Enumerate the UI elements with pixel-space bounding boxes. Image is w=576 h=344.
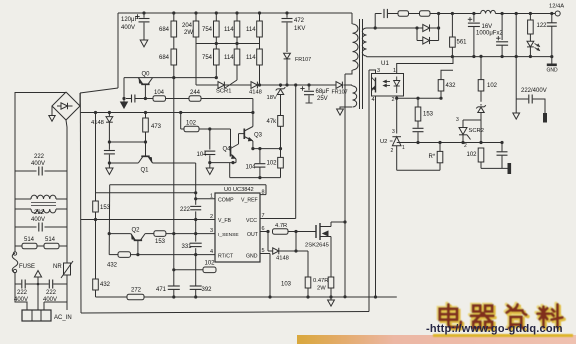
resistor 514 left <box>15 245 22 247</box>
resistor 114 col2 lower <box>259 37 261 49</box>
capacitor 392 <box>195 284 197 287</box>
resistor 561 <box>451 12 454 15</box>
wire pin5 to ground rail <box>269 254 271 298</box>
MOSFET Q5 2SK2645 <box>316 222 331 240</box>
wire SCR1 row <box>196 84 218 86</box>
wire Q4 base riser <box>230 129 232 146</box>
resistor 102 top <box>479 55 482 58</box>
resistor 103 <box>307 251 309 277</box>
resistor 684 upper <box>172 11 175 14</box>
wire diode riser <box>438 14 440 29</box>
wire HV bus <box>118 12 352 14</box>
wire Q0 collector row <box>124 77 216 79</box>
wire segment y162 <box>210 162 236 164</box>
chassis ground bar B <box>543 113 547 123</box>
resistor snubber A <box>398 11 409 17</box>
resistor 754 upper <box>215 11 218 14</box>
wire V_FB row <box>81 219 215 221</box>
thyristor SCR2 <box>461 141 464 144</box>
resistor 102 fb low <box>478 148 484 162</box>
wire gate feedback riser <box>295 232 297 252</box>
capacitor 1000uF B <box>501 12 504 15</box>
ground arrow under rail <box>330 297 332 300</box>
resistor 514 right <box>37 245 44 247</box>
resistor 153 fb2 <box>417 98 419 107</box>
fuse FUSE <box>12 253 18 273</box>
wires into AC connector <box>37 283 40 286</box>
ground GND bar <box>551 57 553 64</box>
capacitor 222 comp <box>190 206 201 209</box>
bridge rectifier <box>52 92 80 120</box>
wire to pin1 <box>195 193 197 199</box>
diode FR107 aux <box>336 82 342 89</box>
wire mid bus <box>81 112 253 114</box>
ground open arrow <box>108 163 110 168</box>
resistor 114 col2 upper <box>258 11 261 14</box>
resistor 473 <box>145 113 147 119</box>
capacitor 104 b <box>259 149 261 164</box>
wire riser to output rail <box>374 14 376 29</box>
resistor 102 rt <box>203 267 216 273</box>
wire AC neutral rail <box>66 120 67 310</box>
capacitor X 222/400V upper <box>15 170 37 172</box>
wire y142 link <box>109 141 145 143</box>
capacitor fb comp <box>413 128 424 131</box>
wire Y-cap column <box>515 12 518 15</box>
pin 8 V_REF <box>260 194 266 196</box>
wire isolation box bottom <box>81 312 369 314</box>
wire riser to y177 rail <box>229 163 231 178</box>
wire 204 column down to SCR row <box>195 37 197 85</box>
wire Q2 row y233 <box>109 233 131 235</box>
watermark text dianqiziliao (drawn) <box>438 303 564 330</box>
wire I_SENSE row <box>166 233 215 235</box>
transformer core <box>359 19 361 109</box>
wire COMP bus <box>96 192 196 194</box>
resistor 102 drive <box>180 113 182 130</box>
wire 244 to Q3 column <box>201 98 253 100</box>
inductor output filter <box>481 10 496 13</box>
wire fb ground row <box>481 167 509 169</box>
diode 4148 aux <box>251 82 257 89</box>
resistor 432 lower <box>95 220 97 280</box>
wire U2 bottom row <box>397 169 440 171</box>
resistor 204 2W <box>194 11 197 14</box>
ground arrow solid <box>123 99 125 103</box>
wire x195 column upper <box>195 163 197 193</box>
resistor 754 lower <box>215 37 217 49</box>
diode 4148 vertical <box>108 113 110 117</box>
wire rt row y269 <box>174 269 203 271</box>
transformer aux winding <box>351 85 353 86</box>
wire 114 col2 down <box>259 65 261 85</box>
wire x195 column lower <box>195 199 197 205</box>
resistor 684 lower <box>173 37 175 49</box>
wire mid row y163 <box>109 162 138 164</box>
watermark url <box>426 323 563 335</box>
watermark bottom bar <box>297 335 576 344</box>
capacitor 471 <box>173 284 175 287</box>
resistor 104 <box>145 98 153 100</box>
capacitor under 4148 <box>108 142 110 150</box>
resistor 47k <box>278 116 284 127</box>
rectifier diode A <box>415 26 418 29</box>
connector AC_IN <box>22 310 51 321</box>
transformer primary winding <box>351 13 353 24</box>
wire bridge to HV bus riser <box>79 93 81 106</box>
rectifier diode B <box>416 28 418 41</box>
resistor 0.47R 2W <box>328 277 334 288</box>
wire AC live rail <box>15 93 66 253</box>
zener diode fb <box>463 119 481 121</box>
wire drain link <box>331 221 345 223</box>
resistor 432 opto <box>438 80 444 91</box>
resistor 4.7R <box>266 230 269 233</box>
capacitor 472 1KV <box>285 11 288 14</box>
watermark underline <box>433 334 573 337</box>
transformer secondary winding <box>362 28 366 56</box>
capacitor snubber series <box>384 9 387 18</box>
resistor 244 <box>189 96 201 102</box>
wire isolation box left <box>79 93 82 313</box>
resistor R* <box>437 151 443 162</box>
wire x109 column <box>108 185 111 255</box>
wire VREF bus <box>110 184 266 186</box>
pin 5 GND <box>260 253 270 255</box>
wire pin8 to VREF bus <box>265 185 267 195</box>
wire x173 long column <box>173 78 175 285</box>
capacitor fb out <box>500 141 503 144</box>
wire VCC riser <box>295 85 297 219</box>
wire 432 top link <box>441 70 453 79</box>
resistor 114 col1 lower <box>236 37 238 49</box>
wire secondary top row <box>367 27 418 29</box>
capacitor 68uF 25V <box>307 83 310 86</box>
wire y148 node <box>253 148 281 150</box>
resistor 122 <box>529 12 532 15</box>
diode FR107 snubber <box>284 53 291 59</box>
capacitor 120uF 400V <box>142 11 145 14</box>
capacitor Q0 base <box>132 95 135 103</box>
wire source down <box>330 240 332 277</box>
diode 4148 gate <box>267 232 269 252</box>
wire row crosslink <box>196 43 260 45</box>
diode SCR1 <box>218 82 224 89</box>
wire left drop to base row <box>123 78 125 99</box>
ground arrow bridge left <box>51 106 53 116</box>
resistor snubber B <box>420 11 431 17</box>
common-mode choke <box>15 198 31 200</box>
resistor 432 q2 bias <box>109 254 118 256</box>
wire isolation box right <box>368 70 370 312</box>
wire SCR2 row <box>397 142 502 144</box>
resistor 153 fb <box>95 113 97 202</box>
capacitor 104 drive <box>209 129 211 150</box>
ground open arrow drive <box>209 163 211 168</box>
resistor 153 q2 <box>145 233 154 235</box>
varistor NR <box>64 263 71 275</box>
resistor 114 col1 upper <box>235 11 238 14</box>
pin 6 OUT <box>260 231 268 233</box>
ground earth arrow up <box>34 271 41 277</box>
wire 684 column to Q0 wire <box>173 65 175 78</box>
capacitor X 222/400V lower <box>15 226 37 228</box>
capacitor 222/400V line B <box>49 280 52 289</box>
wire secondary ground rail <box>367 56 552 58</box>
wire y177 rail <box>230 177 281 179</box>
capacitor 331 <box>190 243 202 246</box>
pin 7 VCC <box>260 218 296 220</box>
resistor 102 b <box>280 149 282 158</box>
zener diode 18V <box>279 83 282 86</box>
wire primary ground rail <box>96 296 397 298</box>
wire primary bottom to MOSFET drain <box>345 70 352 74</box>
capacitor output small <box>550 12 553 15</box>
resistor 272 <box>127 294 144 300</box>
wire 114 col1 to SCR1 gate <box>236 65 238 80</box>
LED indicator <box>529 34 531 41</box>
node snubber <box>285 83 288 86</box>
capacitor 1000uF A <box>472 12 475 15</box>
capacitor 222/400V line A <box>22 280 25 289</box>
node VCC <box>294 83 297 86</box>
chassis ground bar A <box>508 163 512 174</box>
